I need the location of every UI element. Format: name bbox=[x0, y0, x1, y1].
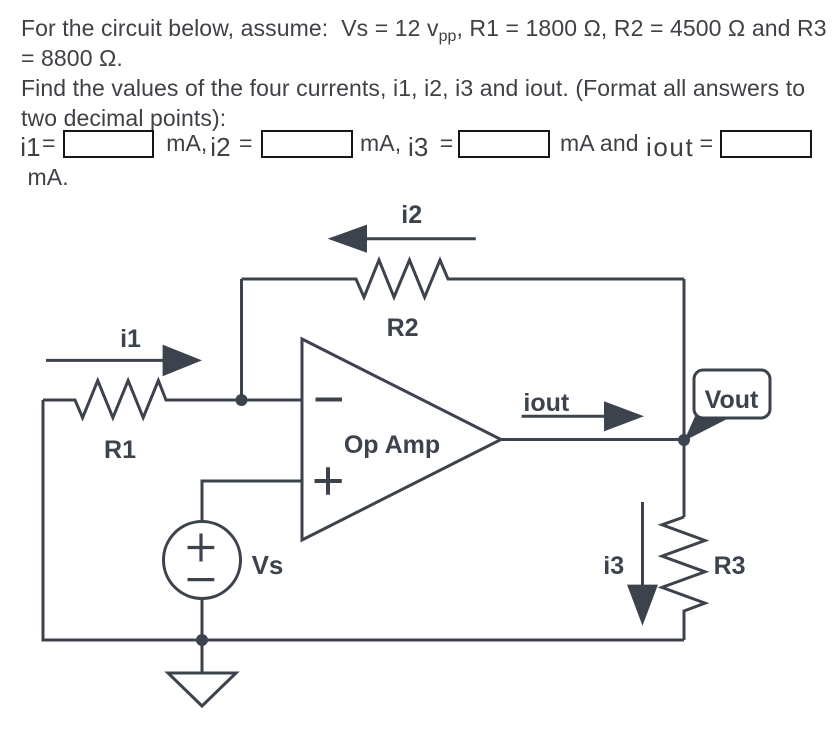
svg-text:Op Amp: Op Amp bbox=[344, 431, 440, 459]
answer input box 4 bbox=[720, 130, 812, 158]
wire: right vertical to R3 bbox=[683, 440, 686, 517]
wire: left vertical + bottom rail bbox=[43, 400, 684, 640]
answer row: variable i1 bbox=[20, 132, 40, 162]
node A: inverting input junction bbox=[236, 394, 248, 406]
ground bbox=[168, 673, 236, 706]
question text line 6 bbox=[28, 163, 69, 191]
node B: output junction bbox=[678, 434, 690, 446]
current arrow iout bbox=[522, 401, 644, 431]
svg-text:i2: i2 bbox=[401, 201, 422, 229]
question text line 3 bbox=[21, 74, 805, 102]
answer input box 2 bbox=[261, 130, 353, 158]
Vs minus symbol bbox=[188, 578, 215, 581]
Vout callout tail bbox=[684, 414, 731, 441]
svg-text:i3: i3 bbox=[603, 552, 624, 580]
svg-text:R2: R2 bbox=[387, 314, 419, 342]
answer row: variable i3 bbox=[408, 132, 428, 162]
op-amp minus symbol bbox=[316, 398, 343, 402]
svg-text:i1: i1 bbox=[120, 325, 141, 353]
current arrow i3 bbox=[627, 502, 658, 626]
current arrow i1 bbox=[46, 345, 202, 377]
wire: ground stub bbox=[201, 640, 204, 673]
answer row: variable i2 bbox=[210, 132, 230, 162]
wire: below source bbox=[201, 599, 204, 641]
Vs plus symbol bbox=[188, 534, 215, 562]
svg-text:Vs: Vs bbox=[252, 550, 284, 580]
wire: op-amp output bbox=[501, 438, 684, 441]
wire: right vertical upper bbox=[683, 279, 686, 440]
voltage source Vs bbox=[164, 522, 241, 599]
resistor R2 bbox=[242, 260, 685, 297]
op-amp U1 bbox=[302, 339, 501, 540]
answer row: variable iout bbox=[646, 132, 694, 162]
op-amp plus symbol bbox=[315, 467, 342, 495]
svg-text:R1: R1 bbox=[104, 436, 136, 464]
resistor R1 bbox=[43, 381, 302, 418]
answer input box 1 bbox=[63, 130, 155, 158]
question text line 1 bbox=[21, 14, 827, 46]
wire: feedback vertical bbox=[240, 279, 243, 400]
svg-text:R3: R3 bbox=[714, 552, 746, 580]
svg-text:Vout: Vout bbox=[705, 386, 759, 414]
resistor R3 bbox=[662, 517, 705, 640]
answer input box 3 bbox=[458, 130, 550, 158]
Vout callout bubble bbox=[694, 370, 770, 418]
svg-text:iout: iout bbox=[523, 389, 569, 417]
node C: ground junction bbox=[196, 634, 208, 646]
wire: plus input bbox=[202, 481, 302, 522]
question text line 4 bbox=[21, 104, 226, 132]
question text line 2 bbox=[21, 44, 123, 72]
current arrow i2 bbox=[328, 225, 476, 253]
